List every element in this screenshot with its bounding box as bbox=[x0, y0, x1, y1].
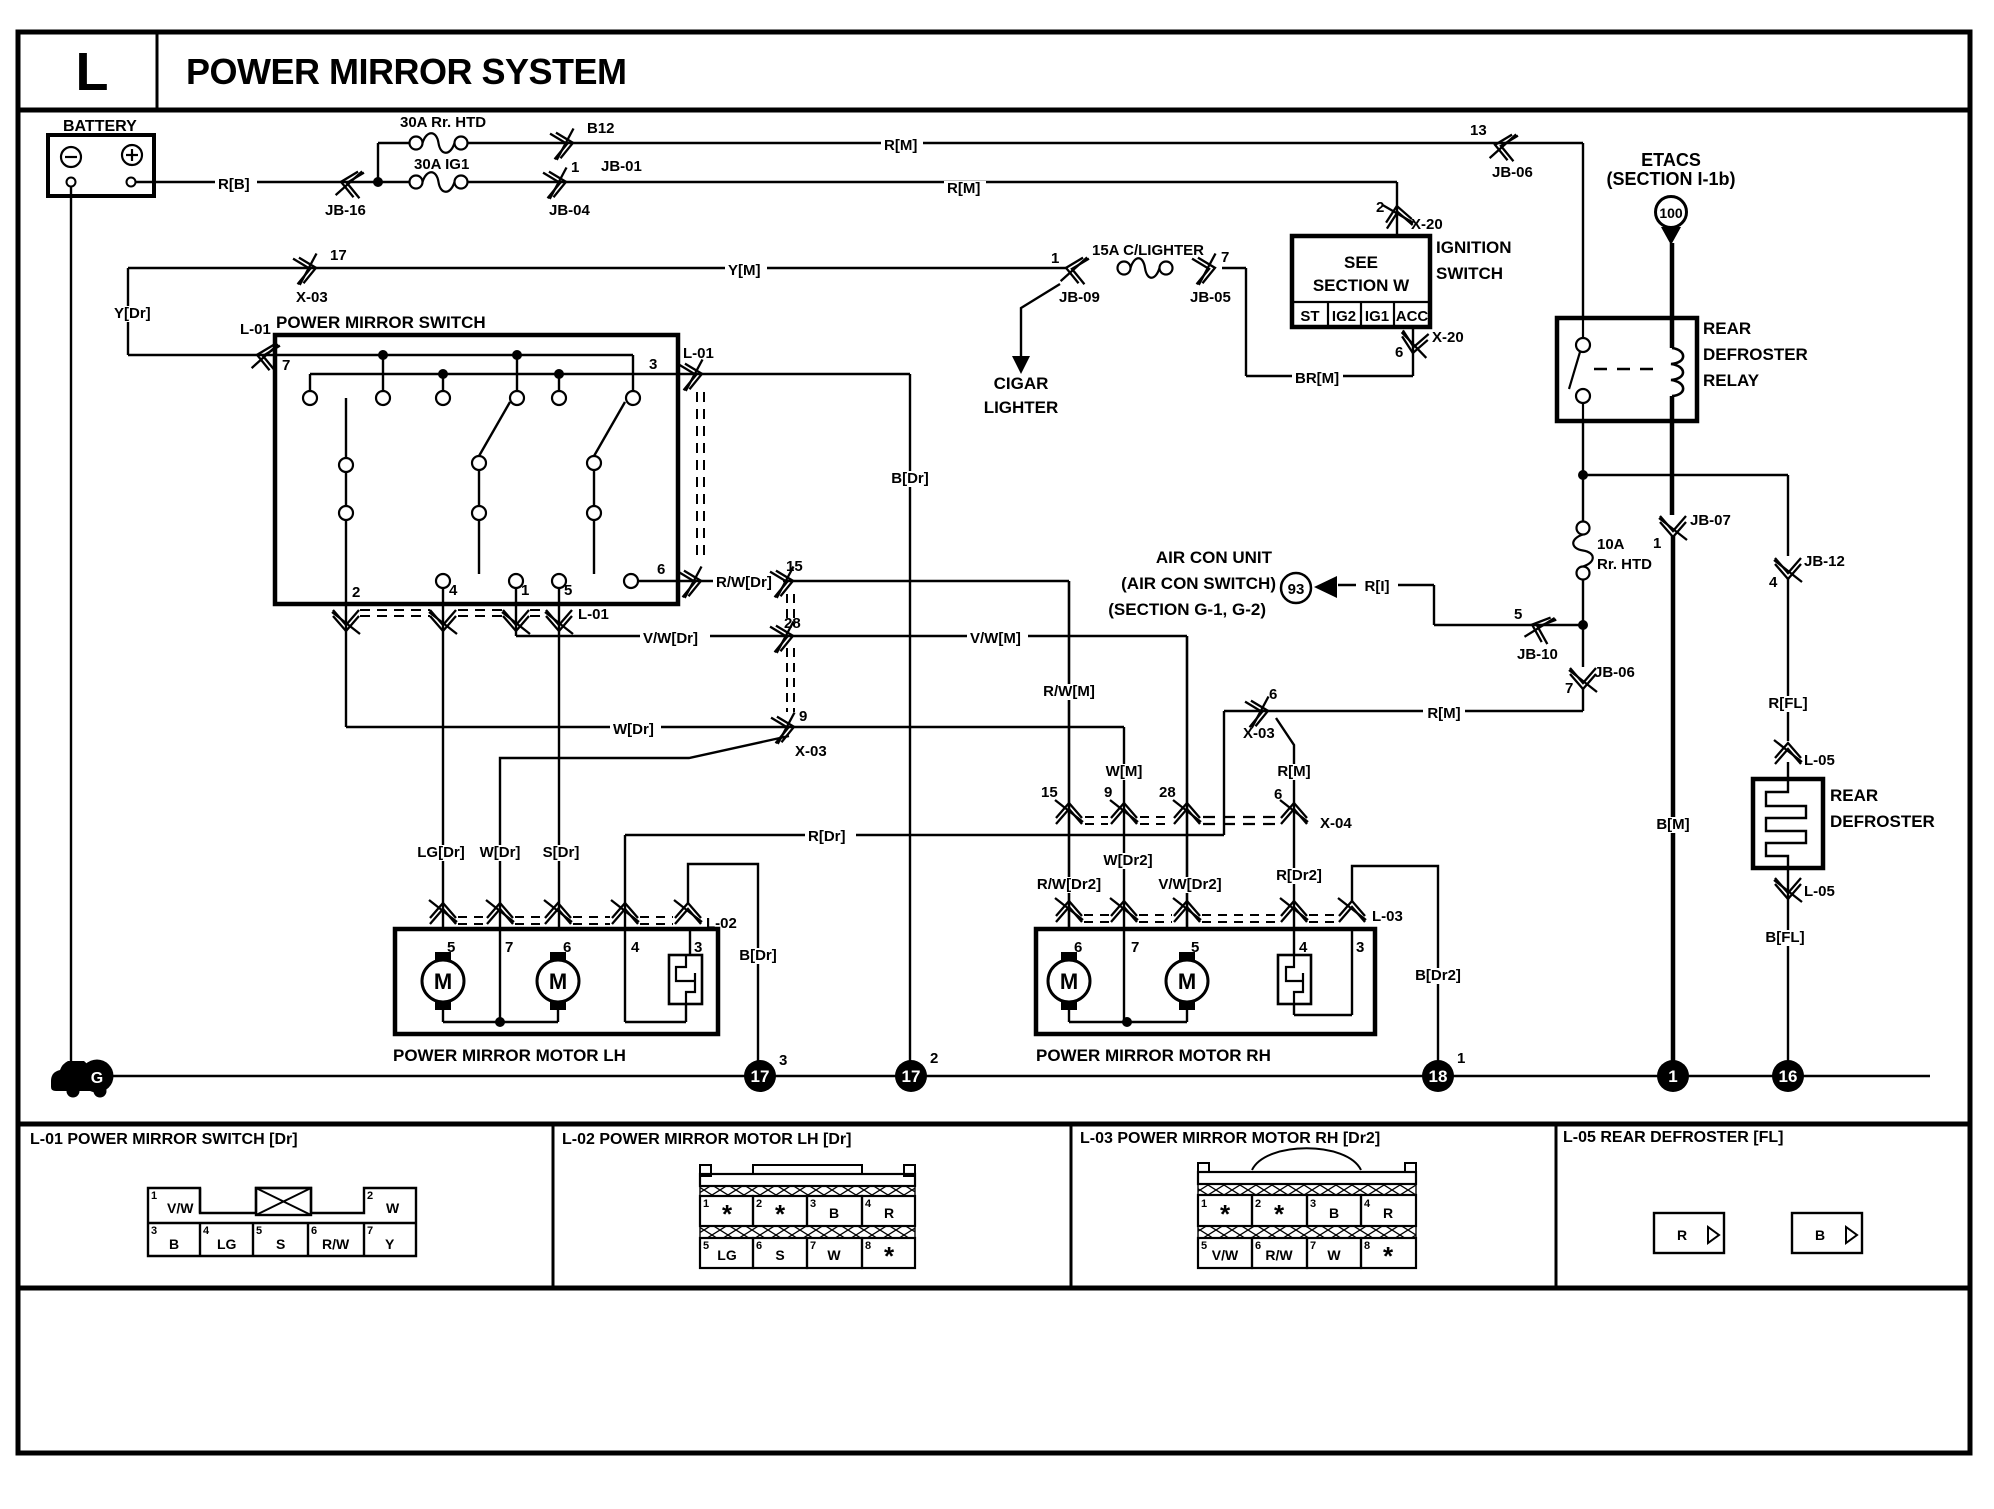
motor LH left M bbox=[435, 952, 451, 962]
wire branch to motor LH pin 7 bbox=[500, 736, 789, 929]
svg-text:JB-12: JB-12 bbox=[1804, 553, 1845, 570]
L-01 keyway X box bbox=[256, 1188, 311, 1215]
svg-text:2: 2 bbox=[930, 1050, 938, 1067]
switch lever column mid bbox=[479, 402, 510, 456]
svg-text:93: 93 bbox=[1288, 581, 1305, 598]
label LG[Dr] bbox=[411, 845, 472, 861]
svg-text:M: M bbox=[549, 969, 567, 994]
svg-text:JB-07: JB-07 bbox=[1690, 512, 1731, 529]
svg-text:1: 1 bbox=[521, 582, 529, 599]
svg-text:R[M]: R[M] bbox=[884, 137, 917, 154]
svg-text:6: 6 bbox=[563, 939, 571, 956]
connector L-02 arrows bbox=[429, 900, 457, 924]
L-01 bottom dashed harness bbox=[360, 609, 430, 611]
svg-text:3: 3 bbox=[1356, 939, 1364, 956]
wire fuse to junction JB-10 bbox=[1582, 580, 1584, 667]
label V/W[Dr] bbox=[640, 631, 710, 647]
svg-text:LG[Dr]: LG[Dr] bbox=[417, 844, 465, 861]
wire junction right to JB-12 branch bbox=[1583, 474, 1788, 476]
svg-text:3: 3 bbox=[649, 356, 657, 373]
switch bottom contact circles bbox=[436, 574, 450, 588]
cigar lighter arrowhead bbox=[1012, 356, 1030, 374]
wire W[M] vertical bbox=[1123, 727, 1125, 929]
header L box divider bbox=[156, 32, 159, 110]
svg-text:R[Dr]: R[Dr] bbox=[808, 828, 846, 845]
pin stubs bottom bbox=[442, 588, 444, 604]
svg-text:8: 8 bbox=[1364, 1240, 1370, 1252]
svg-text:1: 1 bbox=[1457, 1050, 1465, 1067]
svg-text:X-03: X-03 bbox=[1243, 725, 1275, 742]
svg-text:SEE: SEE bbox=[1344, 253, 1378, 272]
svg-text:9: 9 bbox=[1104, 784, 1112, 801]
svg-text:JB-06: JB-06 bbox=[1492, 164, 1533, 181]
svg-text:R[M]: R[M] bbox=[947, 180, 980, 197]
svg-text:2: 2 bbox=[1255, 1198, 1261, 1210]
battery minus terminal symbol bbox=[61, 147, 81, 167]
svg-text:(SECTION I-1b): (SECTION I-1b) bbox=[1607, 169, 1736, 189]
relay coil bbox=[1671, 348, 1683, 396]
connector X-03 arrow 17 bbox=[293, 254, 321, 286]
svg-text:REAR: REAR bbox=[1830, 786, 1878, 805]
svg-text:L-01 POWER MIRROR SWITCH [Dr]: L-01 POWER MIRROR SWITCH [Dr] bbox=[30, 1131, 298, 1148]
power mirror motor LH box bbox=[395, 929, 718, 1034]
svg-text:RELAY: RELAY bbox=[1703, 371, 1760, 390]
svg-text:IG2: IG2 bbox=[1332, 308, 1356, 325]
label R[M] vertical bbox=[1273, 764, 1315, 780]
svg-text:B[Dr]: B[Dr] bbox=[739, 947, 777, 964]
svg-text:7: 7 bbox=[282, 357, 290, 374]
connector L-03 pinout bbox=[1252, 1148, 1361, 1170]
connector X-03 arrow 6 bbox=[1245, 697, 1273, 729]
motor RH right M bbox=[1179, 952, 1195, 962]
svg-text:3: 3 bbox=[1310, 1198, 1316, 1210]
battery plus terminal symbol bbox=[122, 145, 142, 165]
junction fuse branch bbox=[373, 177, 383, 187]
svg-text:*: * bbox=[775, 1199, 786, 1229]
ETACS arrowhead bbox=[1661, 227, 1681, 245]
connector L-05 pinout B bbox=[1792, 1213, 1862, 1253]
svg-text:5: 5 bbox=[1201, 1240, 1207, 1252]
svg-text:17: 17 bbox=[902, 1067, 921, 1086]
connector JB-16 arrow bbox=[336, 168, 364, 200]
connector X-20 arrow 2 bbox=[1383, 201, 1414, 229]
connector JB-04 arrow 1 bbox=[543, 168, 571, 200]
svg-text:W[M]: W[M] bbox=[1106, 763, 1143, 780]
svg-text:X-20: X-20 bbox=[1432, 329, 1464, 346]
svg-text:4: 4 bbox=[203, 1225, 210, 1237]
svg-text:2: 2 bbox=[352, 584, 360, 601]
svg-text:W[Dr]: W[Dr] bbox=[613, 721, 654, 738]
ground rail wire bbox=[110, 1075, 1930, 1077]
svg-text:5: 5 bbox=[703, 1240, 709, 1252]
wire pin5 S[Dr] bbox=[558, 604, 560, 929]
svg-text:M: M bbox=[1060, 969, 1078, 994]
svg-text:L-01: L-01 bbox=[240, 321, 271, 338]
svg-text:G: G bbox=[91, 1070, 103, 1087]
connector B12 / JB-01 arrow bbox=[550, 129, 578, 161]
motor LH breaker bbox=[669, 955, 702, 1004]
svg-text:IGNITION: IGNITION bbox=[1436, 238, 1512, 257]
svg-text:ETACS: ETACS bbox=[1641, 150, 1701, 170]
wire pin3 B[Dr] bbox=[678, 373, 910, 375]
wire motor LH pin3 riser to B[Dr] bbox=[688, 864, 758, 1076]
svg-text:LIGHTER: LIGHTER bbox=[984, 398, 1059, 417]
connector JB-10 arrow 5 bbox=[1524, 610, 1556, 645]
svg-text:B12: B12 bbox=[587, 120, 615, 137]
svg-text:15: 15 bbox=[1041, 784, 1058, 801]
switch column pin 2 bbox=[345, 398, 347, 458]
svg-text:CIGAR: CIGAR bbox=[994, 374, 1049, 393]
svg-text:M: M bbox=[1178, 969, 1196, 994]
svg-text:JB-06: JB-06 bbox=[1594, 664, 1635, 681]
label B[M] bbox=[1652, 817, 1694, 833]
relay switch contacts bbox=[1582, 318, 1584, 338]
wire motor RH pin3 riser to B[Dr2] bbox=[1352, 866, 1438, 1076]
svg-text:R[M]: R[M] bbox=[1427, 705, 1460, 722]
svg-text:1: 1 bbox=[571, 159, 579, 176]
rear defroster element bbox=[1766, 779, 1806, 868]
svg-text:L-05: L-05 bbox=[1804, 883, 1835, 900]
ignition switch pin cells bbox=[1292, 301, 1430, 303]
svg-text:100: 100 bbox=[1659, 205, 1683, 221]
ground circle 17 #3 bbox=[744, 1060, 776, 1092]
ground symbol G car icon bbox=[51, 1061, 96, 1091]
connector JB-07 arrow 1 bbox=[1659, 516, 1687, 540]
fuse 30A Rr. HTD bbox=[423, 133, 455, 153]
motor LH right M bbox=[550, 952, 566, 962]
svg-text:4: 4 bbox=[1769, 574, 1778, 591]
svg-text:4: 4 bbox=[631, 939, 640, 956]
wire battery negative down bbox=[70, 186, 72, 1068]
svg-text:*: * bbox=[722, 1199, 733, 1229]
svg-text:L: L bbox=[76, 42, 109, 102]
svg-text:1: 1 bbox=[1653, 535, 1661, 552]
svg-text:(AIR CON SWITCH): (AIR CON SWITCH) bbox=[1121, 574, 1276, 593]
svg-text:18: 18 bbox=[1429, 1067, 1448, 1086]
connector JB-09 arrow 1 bbox=[1061, 254, 1089, 286]
ground circle 18 #1 bbox=[1422, 1060, 1454, 1092]
label B[Dr] motor LH bbox=[732, 948, 783, 964]
svg-text:2: 2 bbox=[367, 1190, 373, 1202]
svg-text:AIR CON UNIT: AIR CON UNIT bbox=[1156, 548, 1273, 567]
label R[M] second wire bbox=[944, 181, 986, 197]
svg-text:28: 28 bbox=[784, 615, 801, 632]
svg-text:R[FL]: R[FL] bbox=[1768, 695, 1807, 712]
svg-text:S[Dr]: S[Dr] bbox=[543, 844, 580, 861]
svg-text:JB-04: JB-04 bbox=[549, 202, 591, 219]
svg-text:LG: LG bbox=[717, 1247, 737, 1263]
connector X-04 arrows bbox=[1055, 800, 1083, 824]
svg-text:B[FL]: B[FL] bbox=[1765, 929, 1804, 946]
thick wire coil through box down bbox=[1670, 396, 1675, 515]
svg-text:3: 3 bbox=[151, 1225, 157, 1237]
svg-text:L-03: L-03 bbox=[1372, 908, 1403, 925]
svg-text:B: B bbox=[169, 1236, 179, 1252]
svg-text:IG1: IG1 bbox=[1365, 308, 1389, 325]
svg-text:W: W bbox=[827, 1247, 841, 1263]
svg-text:6: 6 bbox=[1274, 786, 1282, 803]
svg-text:6: 6 bbox=[1269, 686, 1277, 703]
wire pin4 LG[Dr] bbox=[442, 604, 444, 929]
label R/W[M] bbox=[1039, 684, 1100, 700]
svg-text:15A C/LIGHTER: 15A C/LIGHTER bbox=[1092, 242, 1204, 259]
svg-text:SECTION W: SECTION W bbox=[1313, 276, 1410, 295]
svg-text:10A: 10A bbox=[1597, 536, 1625, 553]
wire branch to cigar lighter bbox=[1021, 284, 1060, 356]
svg-text:6: 6 bbox=[1074, 939, 1082, 956]
svg-text:1: 1 bbox=[1668, 1067, 1677, 1086]
connector X-03 arrow 9 bbox=[771, 713, 799, 745]
connector JB-06 arrow 13 bbox=[1490, 131, 1518, 163]
battery post circles bbox=[67, 178, 76, 187]
connector JB-06 arrow 7 bbox=[1569, 668, 1597, 692]
wire branch up to Rr. HTD fuse bbox=[377, 143, 379, 182]
motor LH bottom bus bbox=[442, 1009, 444, 1022]
label R[Dr] bbox=[805, 829, 856, 845]
bus stubs to contacts bbox=[382, 355, 384, 391]
svg-text:JB-16: JB-16 bbox=[325, 202, 366, 219]
thick wire B[M] relay coil to circle 1 bbox=[1671, 536, 1676, 1076]
wire JB-05 to ignition ACC via BR[M] bbox=[1222, 267, 1246, 269]
svg-text:W: W bbox=[386, 1200, 400, 1216]
X-04 dashed harness bbox=[1085, 816, 1108, 818]
svg-text:W[Dr2]: W[Dr2] bbox=[1103, 852, 1152, 869]
label B[Dr] switch pin3 bbox=[884, 471, 935, 487]
svg-text:DEFROSTER: DEFROSTER bbox=[1830, 812, 1935, 831]
wire IG1 fuse to JB-04 and ignition switch bbox=[467, 181, 1397, 183]
svg-text:7: 7 bbox=[1310, 1240, 1316, 1252]
svg-text:R: R bbox=[884, 1205, 894, 1221]
connector X-03 arrow 15 bbox=[770, 567, 798, 599]
svg-text:1: 1 bbox=[703, 1198, 709, 1210]
svg-text:B: B bbox=[1815, 1227, 1825, 1243]
svg-text:5: 5 bbox=[1514, 606, 1522, 623]
connector L-05 pinout R bbox=[1654, 1213, 1724, 1253]
svg-text:B[M]: B[M] bbox=[1656, 816, 1689, 833]
svg-text:15: 15 bbox=[786, 558, 803, 575]
svg-text:3: 3 bbox=[810, 1198, 816, 1210]
connector L-01 arrow 3 (right) bbox=[679, 360, 707, 392]
svg-text:R[B]: R[B] bbox=[218, 176, 250, 193]
rear defroster relay box bbox=[1557, 318, 1697, 421]
wire R[Dr] motor LH pin4 up and right bbox=[624, 835, 626, 1022]
svg-text:ST: ST bbox=[1300, 308, 1319, 325]
svg-text:5: 5 bbox=[564, 582, 572, 599]
svg-text:REAR: REAR bbox=[1703, 319, 1751, 338]
L-02 dashed harness bbox=[458, 916, 485, 918]
ground circle 1 bbox=[1657, 1060, 1689, 1092]
connector L-02 pinout bbox=[700, 1165, 711, 1176]
svg-text:8: 8 bbox=[865, 1240, 871, 1252]
air con arrowhead bbox=[1314, 576, 1337, 598]
label S[Dr] bbox=[535, 845, 586, 861]
svg-text:6: 6 bbox=[311, 1225, 317, 1237]
ground circle 16 bbox=[1772, 1060, 1804, 1092]
label R[FL] bbox=[1762, 696, 1813, 712]
connector L-01 arrow 6 (right) bbox=[678, 567, 706, 599]
connector L-05 lower arrow bbox=[1774, 878, 1802, 902]
svg-text:6: 6 bbox=[1395, 344, 1403, 361]
legend band separators bbox=[18, 1122, 1970, 1127]
svg-text:*: * bbox=[1220, 1199, 1231, 1229]
svg-text:R[I]: R[I] bbox=[1365, 578, 1390, 595]
label R[I] bbox=[1356, 579, 1398, 595]
wire right corner down to relay bbox=[1582, 143, 1584, 318]
svg-text:3: 3 bbox=[779, 1052, 787, 1069]
svg-text:7: 7 bbox=[1221, 249, 1229, 266]
wire left to JB-10 and air con R[I] bbox=[1434, 624, 1583, 626]
svg-text:X-03: X-03 bbox=[296, 289, 328, 306]
svg-text:X-04: X-04 bbox=[1320, 815, 1352, 832]
svg-text:7: 7 bbox=[367, 1225, 373, 1237]
junction to JB-12 branch bbox=[1578, 470, 1588, 480]
ETACS circle 100 bbox=[1656, 197, 1687, 228]
svg-text:4: 4 bbox=[1299, 939, 1308, 956]
wire down to ignition switch X-20 pin 2 bbox=[1396, 182, 1398, 236]
svg-text:2: 2 bbox=[756, 1198, 762, 1210]
svg-text:B[Dr]: B[Dr] bbox=[891, 470, 929, 487]
air con circle 93 bbox=[1281, 573, 1311, 603]
motor RH bottom bus bbox=[1068, 1009, 1070, 1022]
svg-text:R/W[Dr2]: R/W[Dr2] bbox=[1037, 876, 1101, 893]
svg-text:V/W[Dr2]: V/W[Dr2] bbox=[1158, 876, 1221, 893]
svg-text:R[M]: R[M] bbox=[1277, 763, 1310, 780]
svg-text:ACC: ACC bbox=[1396, 308, 1429, 325]
svg-text:30A IG1: 30A IG1 bbox=[414, 156, 469, 173]
label V/W[M] bbox=[967, 631, 1028, 647]
svg-text:Rr. HTD: Rr. HTD bbox=[1597, 556, 1652, 573]
svg-text:7: 7 bbox=[1131, 939, 1139, 956]
svg-text:*: * bbox=[1274, 1199, 1285, 1229]
svg-text:Y[M]: Y[M] bbox=[728, 262, 761, 279]
label W[Dr] bbox=[610, 722, 661, 738]
svg-text:R: R bbox=[1383, 1205, 1393, 1221]
relay actuation dashed line bbox=[1594, 368, 1656, 371]
connector L-01 bottom arrows bbox=[332, 610, 360, 634]
svg-text:R/W[Dr]: R/W[Dr] bbox=[716, 574, 772, 591]
svg-text:5: 5 bbox=[1191, 939, 1199, 956]
svg-text:28: 28 bbox=[1159, 784, 1176, 801]
svg-text:6: 6 bbox=[756, 1240, 762, 1252]
connector L-05 upper arrow bbox=[1774, 740, 1802, 764]
label B[FL] bbox=[1759, 930, 1810, 946]
svg-text:*: * bbox=[884, 1241, 895, 1271]
svg-text:7: 7 bbox=[810, 1240, 816, 1252]
switch lever column right bbox=[594, 402, 625, 456]
svg-text:L-05 REAR DEFROSTER [FL]: L-05 REAR DEFROSTER [FL] bbox=[1563, 1129, 1783, 1146]
harness labels Dr2 bbox=[1029, 877, 1109, 893]
wire down to rear defroster R[FL] bbox=[1787, 578, 1789, 741]
motor RH breaker bbox=[1278, 955, 1311, 1004]
power mirror switch box bbox=[275, 335, 678, 604]
connector L-01 arrow 7 (left) bbox=[252, 341, 280, 373]
svg-text:DEFROSTER: DEFROSTER bbox=[1703, 345, 1808, 364]
wire B[FL] down to circle 16 bbox=[1787, 868, 1789, 1076]
svg-text:Y: Y bbox=[385, 1236, 395, 1252]
svg-text:5: 5 bbox=[447, 939, 455, 956]
connector X-20 arrow 6 bbox=[1399, 330, 1430, 358]
svg-text:JB-01: JB-01 bbox=[601, 158, 642, 175]
svg-text:POWER MIRROR MOTOR RH: POWER MIRROR MOTOR RH bbox=[1036, 1046, 1271, 1065]
L-01 dashed harness vertical bbox=[696, 392, 698, 562]
wire Y[M] / Y[Dr] bbox=[128, 267, 1067, 269]
svg-text:SWITCH: SWITCH bbox=[1436, 264, 1503, 283]
svg-text:BR[M]: BR[M] bbox=[1295, 370, 1339, 387]
svg-text:(SECTION G-1, G-2): (SECTION G-1, G-2) bbox=[1108, 600, 1266, 619]
label R[M] lower wire bbox=[1423, 706, 1465, 722]
power mirror motor RH box bbox=[1036, 929, 1375, 1034]
svg-text:BATTERY: BATTERY bbox=[63, 118, 137, 135]
svg-text:V/W: V/W bbox=[1212, 1247, 1239, 1263]
svg-text:JB-10: JB-10 bbox=[1517, 646, 1558, 663]
motor RH left M bbox=[1061, 952, 1077, 962]
svg-text:L-01: L-01 bbox=[578, 606, 609, 623]
svg-text:13: 13 bbox=[1470, 122, 1487, 139]
label W[Dr] vertical bbox=[474, 845, 525, 861]
svg-text:L-05: L-05 bbox=[1804, 752, 1835, 769]
svg-text:S: S bbox=[775, 1247, 784, 1263]
label W[M] bbox=[1103, 764, 1145, 780]
svg-text:2: 2 bbox=[1376, 199, 1384, 216]
svg-text:6: 6 bbox=[657, 561, 665, 578]
svg-text:R/W: R/W bbox=[322, 1236, 350, 1252]
svg-text:POWER MIRROR SYSTEM: POWER MIRROR SYSTEM bbox=[186, 51, 627, 92]
svg-text:B: B bbox=[1329, 1205, 1339, 1221]
svg-text:POWER MIRROR MOTOR LH: POWER MIRROR MOTOR LH bbox=[393, 1046, 626, 1065]
svg-text:V/W[Dr]: V/W[Dr] bbox=[643, 630, 698, 647]
svg-text:JB-05: JB-05 bbox=[1190, 289, 1231, 306]
L-03 dashed harness bbox=[1084, 914, 1110, 916]
svg-text:6: 6 bbox=[1255, 1240, 1261, 1252]
svg-text:L-02 POWER MIRROR MOTOR LH [Dr: L-02 POWER MIRROR MOTOR LH [Dr] bbox=[562, 1131, 851, 1148]
ground circle 17 #2 bbox=[895, 1060, 927, 1092]
connector L-01 pinout bbox=[148, 1188, 416, 1256]
svg-text:JB-09: JB-09 bbox=[1059, 289, 1100, 306]
svg-text:1: 1 bbox=[1201, 1198, 1207, 1210]
wire R[M]/R[Dr2] vertical bbox=[1276, 718, 1294, 929]
connector JB-05 arrow 7 bbox=[1192, 254, 1220, 286]
connector X-03 arrow 28 bbox=[770, 622, 798, 654]
junction to air con bbox=[1578, 620, 1588, 630]
svg-text:X-20: X-20 bbox=[1411, 216, 1443, 233]
svg-text:R: R bbox=[1677, 1227, 1687, 1243]
svg-text:1: 1 bbox=[151, 1190, 157, 1202]
svg-text:V/W[M]: V/W[M] bbox=[970, 630, 1021, 647]
svg-text:X-03: X-03 bbox=[795, 743, 827, 760]
svg-text:M: M bbox=[434, 969, 452, 994]
switch top contact circles bbox=[303, 391, 317, 405]
svg-text:4: 4 bbox=[1364, 1198, 1371, 1210]
switch internal bus row B pin 3 bbox=[310, 373, 678, 375]
svg-text:L-03 POWER MIRROR MOTOR RH [Dr: L-03 POWER MIRROR MOTOR RH [Dr2] bbox=[1080, 1130, 1380, 1147]
svg-text:L-01: L-01 bbox=[683, 345, 714, 362]
label B[Dr2] bbox=[1408, 968, 1469, 984]
thick wire ETACS down to relay coil bbox=[1670, 243, 1675, 348]
rear defroster box bbox=[1753, 779, 1823, 868]
wire down and left R[M] bbox=[1582, 688, 1584, 711]
ignition switch box bbox=[1292, 236, 1430, 327]
svg-text:V/W: V/W bbox=[167, 1200, 194, 1216]
fuse 15A C/LIGHTER bbox=[1131, 258, 1160, 278]
svg-text:LG: LG bbox=[217, 1236, 237, 1252]
svg-text:*: * bbox=[1383, 1241, 1394, 1271]
svg-text:W[Dr]: W[Dr] bbox=[480, 844, 521, 861]
svg-text:7: 7 bbox=[505, 939, 513, 956]
switch internal bus row A bbox=[275, 354, 633, 356]
wire relay switch down to junction bbox=[1582, 421, 1584, 521]
svg-text:17: 17 bbox=[751, 1067, 770, 1086]
wire R[B] battery to fuses bbox=[136, 181, 410, 183]
